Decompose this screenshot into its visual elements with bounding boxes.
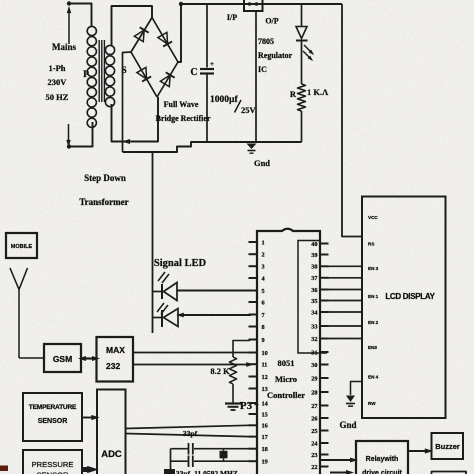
8051 pin 14: [249, 400, 269, 407]
8051 pin 28: [311, 389, 328, 396]
svg-text:MAX: MAX: [106, 345, 125, 355]
svg-text:16: 16: [262, 423, 268, 430]
svg-text:Signal LED: Signal LED: [154, 258, 207, 269]
svg-text:MOBILE: MOBILE: [11, 244, 33, 250]
8051 pin 24: [311, 440, 328, 447]
svg-text:Buzzer: Buzzer: [435, 442, 460, 451]
svg-text:12: 12: [262, 374, 268, 381]
svg-text:drive circuit: drive circuit: [362, 470, 402, 474]
svg-text:17: 17: [262, 434, 268, 441]
svg-text:23: 23: [311, 452, 317, 459]
svg-text:+: +: [210, 60, 214, 68]
8051 pin 25: [311, 428, 328, 435]
svg-text:Step Down: Step Down: [84, 173, 126, 183]
svg-text:1000µf: 1000µf: [210, 95, 238, 105]
wire mains top to transformer primary: [69, 4, 92, 28]
wire resistor to ground rail: [301, 111, 303, 142]
svg-text:30: 30: [311, 362, 317, 369]
8051 pin 30: [311, 362, 328, 369]
svg-text:8051: 8051: [278, 358, 295, 368]
capacitor C plates: [200, 69, 214, 74]
ground crystal: [164, 469, 175, 474]
8051 pin 27: [311, 403, 328, 410]
8051 pin 7: [249, 312, 265, 319]
wire crystal to 8051 pin 19: [171, 460, 251, 462]
svg-text:39: 39: [311, 252, 317, 259]
label TEMPERATURE SENSOR: [29, 404, 77, 425]
8051 pin 8: [249, 324, 265, 331]
8051 pin 4: [249, 275, 266, 282]
8051 pin 13: [249, 386, 268, 393]
mains terminal arrow top: [67, 1, 71, 44]
svg-text:8: 8: [262, 324, 265, 331]
svg-text:EN3: EN3: [368, 345, 377, 350]
label P3: [240, 400, 259, 412]
svg-text:1-Ph: 1-Ph: [49, 63, 66, 73]
arrow relay to buzzer: [408, 448, 433, 453]
svg-text:11: 11: [262, 362, 268, 369]
wire ADC to 8051 pin 16: [126, 425, 250, 428]
svg-text:26: 26: [311, 415, 317, 422]
svg-text:9: 9: [262, 337, 265, 344]
wire secondary bottom to bridge bottom: [112, 97, 159, 144]
partial box below buzzer: [432, 472, 467, 474]
ground symbol power rail: [247, 144, 257, 154]
svg-text:Controller: Controller: [267, 390, 305, 400]
antenna: [10, 268, 28, 358]
svg-text:Full Wave: Full Wave: [164, 100, 199, 109]
wire secondary top to bridge top: [112, 6, 153, 46]
wire 8051 pin 35 to LCD: [328, 300, 363, 302]
svg-text:31: 31: [311, 349, 317, 356]
svg-text:38: 38: [311, 264, 317, 271]
ADC box: [97, 390, 126, 474]
svg-text:O/P: O/P: [265, 17, 278, 26]
ground rail: [123, 142, 302, 152]
svg-text:14: 14: [262, 400, 269, 407]
svg-text:EN 1: EN 1: [368, 294, 379, 299]
capacitor C wire: [206, 4, 208, 142]
8051 pin 2: [249, 252, 265, 259]
label MAX 232: [106, 345, 125, 371]
8051 pin 22: [311, 464, 328, 471]
svg-text:Gnd: Gnd: [339, 420, 356, 430]
svg-text:6: 6: [262, 299, 265, 306]
arrow temperature to ADC: [82, 415, 100, 420]
wire ADC to 8051 pin 17: [126, 434, 250, 437]
wire 8051 pin 32 to LCD: [328, 338, 363, 340]
wire crystal caps to ground: [170, 449, 172, 474]
diode D1 top-left: [134, 27, 148, 41]
svg-text:27: 27: [311, 403, 317, 410]
8051 pin 17: [249, 434, 268, 441]
svg-text:EN 4: EN 4: [368, 375, 379, 380]
svg-text:33pf: 33pf: [176, 469, 191, 474]
wire LED1 to 8051 pin 5: [177, 290, 251, 292]
wire 8051 pin 34 to LCD: [328, 311, 363, 313]
svg-text:VCC: VCC: [368, 215, 378, 220]
label 1000uf/25V: [210, 95, 257, 115]
buzzer box: [432, 433, 464, 459]
capacitor 33pf lower: [189, 456, 193, 468]
label PRESSURE SENSOR: [32, 460, 74, 474]
bidirectional arrow GSM-MAX232: [78, 356, 100, 361]
svg-text:28: 28: [311, 389, 317, 396]
wire bridge negative to ground rail: [123, 52, 132, 152]
MAX232 box: [97, 337, 134, 382]
svg-text:Mains: Mains: [52, 42, 77, 52]
wire 8.2K to 8051 pin 9: [233, 341, 250, 358]
GSM box: [44, 344, 81, 372]
crystal X1 11.0592 MHz: [220, 449, 228, 462]
8051 pin 26: [311, 415, 328, 422]
relay driver box: [356, 441, 408, 474]
svg-text:C: C: [190, 67, 197, 78]
LED signal 1: [158, 272, 177, 301]
8051 pin 32: [311, 336, 328, 343]
svg-text:RW: RW: [368, 401, 376, 406]
label Relay with drive circuit: [362, 456, 402, 474]
svg-text:35: 35: [311, 298, 317, 305]
temperature sensor box: [23, 393, 82, 441]
8051 pin 33: [311, 323, 328, 330]
svg-text:LCD DISPLAY: LCD DISPLAY: [385, 292, 435, 301]
wire ground rail down to signal LEDs: [152, 152, 154, 333]
svg-text:36: 36: [311, 287, 317, 294]
svg-text:SENSOR: SENSOR: [36, 471, 69, 474]
svg-text:Transformer: Transformer: [79, 197, 128, 207]
wire bridge positive to top rail: [178, 2, 183, 62]
transformer T1 primary winding: [87, 26, 96, 127]
wire resistor to ground: [232, 384, 234, 403]
wire LED2 to 8051 pin 7 with arrow: [176, 313, 251, 318]
8051 pin 36: [311, 287, 328, 294]
wire regulator ground pin: [255, 11, 257, 142]
wire LCD RW to ground: [351, 382, 363, 396]
svg-text:34: 34: [311, 309, 318, 316]
8051 pin 23: [311, 452, 328, 459]
svg-text:25: 25: [311, 428, 317, 435]
label 8051 Micro Controller: [267, 358, 305, 400]
8051 pin 11: [249, 362, 268, 369]
diode D2 top-right: [158, 32, 172, 46]
8051 pin 3: [249, 264, 265, 271]
8051 pin 6: [249, 299, 265, 306]
arrow pressure to ADC: [81, 466, 99, 473]
svg-text:5: 5: [262, 288, 265, 295]
svg-text:50 HZ: 50 HZ: [46, 92, 69, 102]
transformer T1 secondary winding: [105, 45, 114, 106]
svg-text:IC: IC: [258, 65, 267, 74]
LED signal 2: [157, 303, 178, 327]
wire MAX232 to 8051 pin 10: [133, 352, 250, 354]
svg-text:11.0592 MHZ: 11.0592 MHZ: [194, 469, 238, 474]
8051 pin 9: [249, 337, 265, 344]
label Mains 1-Ph 230V 50 HZ: [46, 42, 77, 102]
svg-text:2: 2: [262, 252, 265, 259]
svg-text:TEMPERATURE: TEMPERATURE: [29, 404, 77, 411]
svg-text:R: R: [290, 89, 297, 99]
svg-text:8.2 K: 8.2 K: [210, 366, 230, 376]
svg-text:7: 7: [262, 312, 265, 319]
svg-text:Gnd: Gnd: [254, 158, 270, 168]
svg-text:SENSOR: SENSOR: [38, 418, 68, 425]
wire 8051 pin 22 to relay: [321, 458, 358, 463]
svg-text:19: 19: [262, 459, 268, 466]
wire vertical to LED1: [153, 291, 163, 293]
svg-text:Bridge Rectifier: Bridge Rectifier: [156, 114, 211, 123]
svg-text:10: 10: [262, 350, 268, 357]
8051 microcontroller box: [257, 229, 320, 474]
ground reset circuit: [225, 404, 241, 411]
wire MAX232 to 8051 pin 11 with arrow: [133, 362, 254, 367]
svg-text:EN 2: EN 2: [368, 320, 379, 325]
svg-text:Micro: Micro: [275, 374, 297, 384]
8051 pin 12: [249, 374, 268, 381]
svg-text:232: 232: [106, 361, 120, 371]
top +V rail: [181, 3, 342, 5]
regulator U1 7805 box: [244, 0, 263, 11]
8051 inner port rectangle: [298, 241, 327, 354]
8051 pin 15: [249, 411, 268, 418]
mobile box: [6, 233, 37, 258]
wire crystal to 8051 pin 18: [171, 448, 251, 450]
svg-text:RS: RS: [368, 242, 374, 247]
8051 pin 39: [311, 252, 328, 259]
LED D5 light arrows: [303, 45, 315, 62]
LED D5 power indicator: [296, 4, 308, 41]
svg-text:Regulator: Regulator: [258, 51, 293, 60]
wire 8051 pin 38 to LCD: [328, 265, 363, 267]
8051 pin 16: [249, 423, 268, 430]
wire transformer primary bottom to mains terminal: [69, 122, 93, 147]
8051 pin 10: [249, 350, 268, 357]
diode D3 bottom-left: [137, 67, 151, 81]
svg-text:13: 13: [262, 386, 268, 393]
svg-text:7805: 7805: [258, 37, 274, 46]
svg-text:32: 32: [311, 336, 317, 343]
svg-text:29: 29: [311, 375, 317, 382]
8051 pin 34: [311, 309, 328, 316]
8051 pin 1: [249, 239, 265, 246]
svg-text:40: 40: [311, 241, 317, 248]
svg-text:1 K.Λ: 1 K.Λ: [307, 87, 329, 97]
svg-text:37: 37: [311, 275, 317, 282]
svg-text:3: 3: [262, 264, 265, 271]
wire 8051 pin 33 to LCD: [328, 325, 363, 327]
label 7805 Regulator IC: [258, 37, 293, 74]
wire vertical to LED2: [153, 317, 163, 319]
svg-text:GSM: GSM: [53, 354, 72, 364]
svg-text:33pf: 33pf: [183, 429, 198, 438]
svg-text:P: P: [83, 70, 89, 80]
8051 pin 19: [249, 459, 268, 466]
svg-text:25V: 25V: [241, 105, 257, 115]
svg-text:Relaywith: Relaywith: [366, 456, 399, 463]
resistor R 1K zigzag: [298, 84, 306, 111]
LCD display box: [362, 197, 446, 419]
wire 8051 pin 36 to LCD: [328, 289, 363, 291]
label Full Wave Bridge Rectifier: [156, 100, 211, 123]
wire LED to resistor: [301, 41, 303, 85]
ground LCD: [346, 396, 355, 407]
svg-text:1: 1: [262, 239, 265, 246]
8051 pin 31: [311, 349, 328, 356]
svg-text:230V: 230V: [48, 77, 68, 87]
8051 pin 37: [311, 275, 328, 282]
wire antenna to GSM: [19, 357, 44, 359]
diode D4 bottom-right: [160, 72, 174, 86]
svg-text:P3: P3: [240, 400, 253, 412]
8051 pin 35: [311, 298, 328, 305]
svg-text:PRESSURE: PRESSURE: [32, 460, 74, 469]
resistor 8.2K zigzag: [229, 357, 236, 384]
svg-text:22: 22: [311, 464, 317, 471]
svg-text:I/P: I/P: [227, 13, 237, 22]
8051 pin 38: [311, 264, 328, 271]
svg-text:18: 18: [262, 446, 268, 453]
svg-text:EN 3: EN 3: [368, 266, 379, 271]
8051 pin 29: [311, 375, 328, 382]
pressure sensor box: [23, 450, 82, 474]
wire top rail to LCD VCC: [342, 4, 362, 237]
wire 8051 pin 37 to LCD: [328, 277, 363, 279]
8051 pin 5: [249, 288, 265, 295]
label Step Down Transformer: [79, 173, 128, 207]
svg-text:ADC: ADC: [101, 449, 122, 460]
svg-text:15: 15: [262, 411, 268, 418]
transformer core: [99, 40, 104, 102]
svg-text:33: 33: [311, 323, 317, 330]
svg-text:24: 24: [311, 440, 318, 447]
8051 pin 40: [311, 241, 328, 248]
mains terminal arrow bottom: [66, 124, 71, 149]
8051 pin 18: [249, 446, 268, 453]
capacitor 33pf upper: [189, 443, 193, 455]
wire to relay lower arrow: [330, 470, 354, 474]
bridge rectifier diamond: [131, 18, 178, 98]
